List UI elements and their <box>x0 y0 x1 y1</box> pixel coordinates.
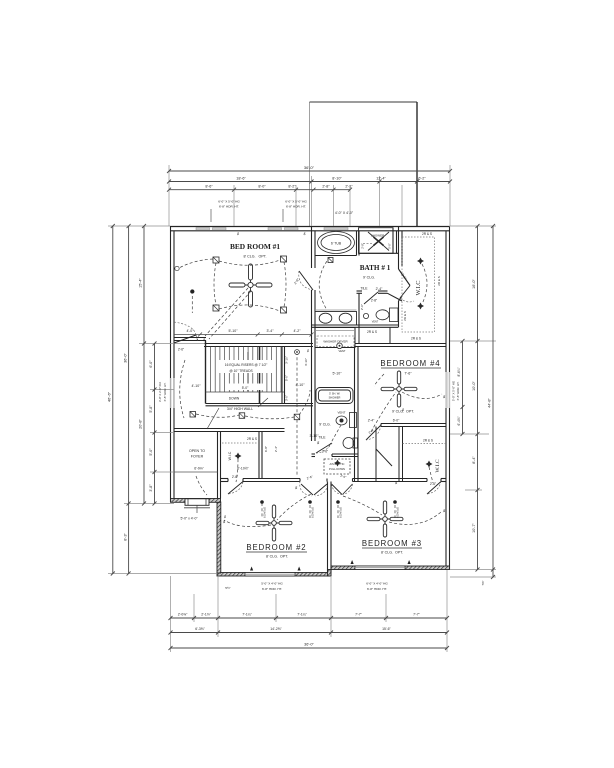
bottom extension lines <box>171 570 448 652</box>
svg-text:2'-8": 2'-8" <box>322 185 330 189</box>
top wall windows (gray sashes) <box>196 228 348 231</box>
bedroom1 fan to door run <box>205 288 248 336</box>
bedroom2 double door arcs <box>300 481 312 496</box>
bedroom3 double door <box>332 484 353 495</box>
svg-text:6'-8" HDR. HT.: 6'-8" HDR. HT. <box>456 381 460 400</box>
bedroom1 wiring loop <box>219 260 280 265</box>
bedroom4 south wall (door opening at left) <box>381 424 446 427</box>
svg-text:5'-0": 5'-0" <box>242 386 249 390</box>
foyer window niche <box>185 499 209 506</box>
bedroom2 double door <box>301 484 327 495</box>
bedroom2/3 divider wall <box>328 482 332 573</box>
speaker drops bedroom2 <box>260 500 397 504</box>
right dim horizontal ticks <box>450 226 496 577</box>
svg-text:2'-8": 2'-8" <box>361 243 365 249</box>
stair direction arrow <box>247 352 249 389</box>
svg-text:6'-0" X 5'-0" HG: 6'-0" X 5'-0" HG <box>285 200 307 204</box>
door size labels over openings <box>306 428 375 481</box>
svg-text:OPEN TO: OPEN TO <box>189 449 205 453</box>
bath1 bottom wall <box>312 325 399 327</box>
svg-text:TILE: TILE <box>318 436 326 440</box>
foyer/WIC divider wall <box>218 432 221 499</box>
stair center rail <box>259 347 261 404</box>
svg-text:6'-0": 6'-0" <box>149 360 153 368</box>
stair treads <box>211 347 282 393</box>
svg-text:DOWN: DOWN <box>229 397 240 401</box>
svg-text:BEDROOM #4: BEDROOM #4 <box>380 359 440 368</box>
svg-text:10'-7": 10'-7" <box>472 523 476 533</box>
svg-text:$: $ <box>236 232 240 236</box>
ceiling fan bedroom1 <box>229 264 272 307</box>
svg-text:5'-0": 5'-0" <box>388 243 392 249</box>
svg-text:PULL DOWN: PULL DOWN <box>329 467 345 471</box>
svg-text:SHOWER: SHOWER <box>371 234 385 238</box>
dim row below bedroom1 <box>174 333 314 337</box>
svg-text:2'-4": 2'-4" <box>274 446 278 452</box>
svg-text:VENT: VENT <box>337 411 345 415</box>
smoke detector hall <box>295 350 300 355</box>
top dim row A 36'-0" <box>167 169 452 173</box>
svg-text:2'-1": 2'-1" <box>345 185 353 189</box>
top dim row B <box>167 180 452 184</box>
svg-text:$: $ <box>394 480 398 485</box>
svg-text:8'-6⅞": 8'-6⅞" <box>457 367 461 376</box>
right dim line 16'/10'/8'-4"/10'-7" <box>476 224 480 572</box>
svg-text:8'-10": 8'-10" <box>332 177 342 181</box>
laundry closet <box>315 328 355 348</box>
tub divider wall <box>315 231 359 256</box>
svg-text:5'-0": 5'-0" <box>285 375 289 381</box>
vanity bath1 <box>315 309 357 311</box>
svg-text:5' SH. W/: 5' SH. W/ <box>329 392 340 396</box>
svg-text:36'-0": 36'-0" <box>123 353 127 363</box>
svg-text:5'-0" x 4'-0": 5'-0" x 4'-0" <box>180 517 198 521</box>
chimney chase right line <box>416 102 418 226</box>
bottom exterior wall bedroom2 <box>217 573 331 577</box>
svg-text:6'-9⅛": 6'-9⅛" <box>194 467 204 471</box>
bedroom3 runs <box>343 496 382 515</box>
svg-text:2R & S: 2R & S <box>423 439 433 443</box>
svg-text:3'-0" X 2'-0" FIX: 3'-0" X 2'-0" FIX <box>158 382 162 402</box>
wic left <box>236 459 238 482</box>
svg-text:6'-0" X 4'-0" HG: 6'-0" X 4'-0" HG <box>366 582 388 586</box>
svg-text:2'-6": 2'-6" <box>306 475 313 481</box>
toilet bath1 <box>363 308 398 322</box>
svg-text:8'-6": 8'-6" <box>205 185 213 189</box>
svg-text:W.I.C: W.I.C <box>228 451 232 460</box>
svg-text:2'-4": 2'-4" <box>368 428 375 435</box>
svg-text:46'-6": 46'-6" <box>107 391 112 402</box>
left exterior wall <box>171 227 175 503</box>
svg-text:7⅝": 7⅝" <box>481 580 485 585</box>
step wall between bedroom2 and bedroom3 bottoms <box>328 570 332 577</box>
svg-text:VENT: VENT <box>339 349 346 353</box>
stair 3/4 high wall <box>206 404 314 406</box>
svg-text:2'-8": 2'-8" <box>371 299 377 303</box>
svg-text:2'-1⅞": 2'-1⅞" <box>201 613 211 617</box>
svg-text:36'-0": 36'-0" <box>304 165 315 170</box>
svg-text:W.I.C: W.I.C <box>435 459 441 472</box>
svg-text:8' CLG. OPT.: 8' CLG. OPT. <box>381 551 403 555</box>
tub <box>318 232 355 254</box>
stair left wall <box>205 341 207 404</box>
WIC3 door <box>427 482 441 495</box>
junction boxes near stair base <box>190 412 300 420</box>
svg-text:6'-8" HDR. HT.: 6'-8" HDR. HT. <box>286 205 306 209</box>
bath2 bottom wall (door opening) <box>312 454 359 457</box>
bath2 <box>328 425 341 448</box>
svg-text:5'-10": 5'-10" <box>229 329 239 333</box>
svg-text:FOYER: FOYER <box>191 455 204 459</box>
bedroom4 door <box>366 425 381 440</box>
stairs texts <box>218 360 274 373</box>
svg-text:6'-8" HDR. HT.: 6'-8" HDR. HT. <box>262 587 282 591</box>
window end receptacle marks <box>250 560 411 571</box>
svg-text:6'-8" HDR. HT.: 6'-8" HDR. HT. <box>367 587 387 591</box>
svg-text:2R & S: 2R & S <box>247 437 257 441</box>
svg-text:6'-0" X 5'-0" HG: 6'-0" X 5'-0" HG <box>218 200 240 204</box>
wic top door arc <box>400 298 414 302</box>
bath2 door leaf <box>316 443 332 453</box>
closet between hall and WIC3 <box>376 427 403 482</box>
svg-text:8' CLG. OPT.: 8' CLG. OPT. <box>243 255 266 259</box>
bedroom1 wall outlets <box>175 266 194 293</box>
svg-text:16'-0": 16'-0" <box>472 279 476 289</box>
svg-text:7'-7": 7'-7" <box>413 613 421 617</box>
ceiling fan bedroom3 <box>367 501 403 537</box>
svg-text:3'-8": 3'-8" <box>149 484 153 492</box>
left wall window (stair landing) <box>170 378 174 408</box>
svg-text:36'-0": 36'-0" <box>304 643 314 647</box>
svg-text:4'-2": 4'-2" <box>294 329 302 333</box>
svg-text:8'-3": 8'-3" <box>123 533 127 541</box>
ceiling fan bedroom4 <box>381 371 417 407</box>
bath2 east wall <box>355 347 359 482</box>
svg-text:9' CLG.: 9' CLG. <box>363 276 375 280</box>
svg-text:7'-7": 7'-7" <box>355 613 363 617</box>
svg-text:7'-1¼": 7'-1¼" <box>242 613 252 617</box>
svg-text:3'-0": 3'-0" <box>285 395 289 401</box>
bottom dim row1 <box>169 616 450 620</box>
shower bath1 <box>359 228 394 254</box>
svg-text:BATH # 1: BATH # 1 <box>360 264 391 272</box>
bedroom1 door leaf <box>174 335 196 343</box>
svg-text:10'-0": 10'-0" <box>472 381 476 391</box>
svg-text:VENT: VENT <box>372 321 379 324</box>
top exterior wall <box>170 227 450 231</box>
svg-text:2'-6": 2'-6" <box>322 450 328 454</box>
hall / bedroom north wall (with door openings) <box>221 479 446 482</box>
bedroom3 double door arcs <box>332 484 343 495</box>
svg-text:8' CLG. OPT.: 8' CLG. OPT. <box>266 555 288 559</box>
svg-text:12'-4": 12'-4" <box>376 177 386 181</box>
left dim line 46'-6" <box>111 224 115 576</box>
svg-text:18'-6": 18'-6" <box>236 177 246 181</box>
bath2 toilet <box>343 438 358 449</box>
svg-text:15'-4": 15'-4" <box>139 278 143 288</box>
bedroom1 bottom wall <box>174 338 206 341</box>
right exterior wall <box>446 227 450 570</box>
svg-text:6'-8" HDR. HT.: 6'-8" HDR. HT. <box>163 382 167 401</box>
stair bottom rail <box>206 391 285 393</box>
bath1 west wall <box>312 227 316 442</box>
WIC bedroom3 <box>403 443 447 445</box>
bath1 light square <box>328 258 333 263</box>
svg-text:8'-4": 8'-4" <box>472 456 476 464</box>
left WIC east wall <box>259 432 262 479</box>
svg-text:2'-6": 2'-6" <box>400 273 408 281</box>
svg-text:BED ROOM #1: BED ROOM #1 <box>230 242 280 251</box>
svg-text:5'-10": 5'-10" <box>333 372 343 376</box>
svg-text:TILE: TILE <box>360 287 368 291</box>
chimney chase top line <box>310 101 418 103</box>
svg-text:20'-8": 20'-8" <box>139 419 143 429</box>
svg-text:2'-6": 2'-6" <box>340 474 347 480</box>
stair area runs <box>180 360 185 418</box>
hall vertical run <box>296 352 298 476</box>
top dim extension lines <box>169 165 450 226</box>
svg-text:3'-4": 3'-4" <box>267 329 275 333</box>
svg-text:7'-1¼": 7'-1¼" <box>297 613 307 617</box>
bath1 door arc <box>299 271 313 290</box>
svg-text:8'-0": 8'-0" <box>258 185 266 189</box>
wic right bottom <box>429 467 433 483</box>
left dim horizontal ticks <box>108 226 217 574</box>
bedroom1 left wall runs <box>179 259 213 268</box>
svg-text:$: $ <box>442 508 446 513</box>
svg-text:2'-0": 2'-0" <box>360 304 364 310</box>
left dim line 15'-4"/20'-8" <box>142 224 146 506</box>
svg-text:6'-10½": 6'-10½" <box>237 467 249 471</box>
svg-text:2'-6": 2'-6" <box>293 277 301 285</box>
svg-text:3'-10": 3'-10" <box>304 358 308 366</box>
foyer bottom exterior wall <box>171 499 221 503</box>
bedroom4 runs <box>371 392 396 432</box>
switches <box>202 337 446 524</box>
svg-text:SPEAKER: SPEAKER <box>396 507 399 518</box>
svg-text:6'-4⅜": 6'-4⅜" <box>457 416 461 425</box>
wic left door arc <box>228 482 243 494</box>
stair right wall <box>282 347 285 404</box>
svg-text:2R & S: 2R & S <box>422 232 432 236</box>
WIC door leaf <box>400 286 410 299</box>
bedroom2 left exterior wall <box>217 502 221 573</box>
top dim row C <box>167 188 352 192</box>
svg-text:5'-0": 5'-0" <box>149 448 153 456</box>
svg-text:3'-10": 3'-10" <box>310 434 320 438</box>
light diamonds <box>235 258 433 468</box>
wic top arc <box>422 264 427 304</box>
svg-text:BEDROOM #3: BEDROOM #3 <box>362 539 422 548</box>
right dim inner segments <box>461 339 465 436</box>
svg-text:6' TUB: 6' TUB <box>331 241 342 245</box>
svg-text:SHOWER: SHOWER <box>329 396 341 400</box>
svg-text:WASHER DRYER: WASHER DRYER <box>323 340 348 344</box>
left dim line segments 6'-0"/5'-8"/5'-0"/3'-8" <box>153 342 157 506</box>
chimney chase left line <box>309 102 311 226</box>
svg-text:2R & S: 2R & S <box>403 311 407 321</box>
svg-text:@ 10" TREADS: @ 10" TREADS <box>229 369 253 373</box>
bedroom4 door arc <box>366 425 381 440</box>
svg-text:9' CLG.: 9' CLG. <box>319 423 330 427</box>
svg-text:2'-0⅜": 2'-0⅜" <box>178 613 188 617</box>
svg-text:SPEAKER: SPEAKER <box>311 507 314 518</box>
svg-text:$: $ <box>316 440 320 445</box>
bedroom1 entry arc <box>196 335 198 341</box>
svg-text:7'-6": 7'-6" <box>404 372 412 376</box>
bottom dim row3 36'-0" <box>169 646 450 650</box>
bottom dim row2 <box>169 631 450 635</box>
WIC top (bath1 closet) west wall <box>399 227 411 302</box>
svg-text:2'-6": 2'-6" <box>178 348 184 352</box>
shower east wall <box>359 228 399 254</box>
svg-text:4'-10": 4'-10" <box>192 384 202 388</box>
water closet walls <box>357 291 403 327</box>
svg-text:W.I.C: W.I.C <box>415 280 422 295</box>
misc small rotated dims in middle <box>264 304 407 452</box>
svg-text:3/4" HIGH WALL: 3/4" HIGH WALL <box>227 407 253 411</box>
svg-text:2R & S: 2R & S <box>437 276 441 286</box>
svg-text:SPEAKER: SPEAKER <box>339 507 342 518</box>
left dim line 36'-0"/8'-3" <box>127 224 131 576</box>
WIC bottom wall / bedroom4 top wall <box>355 344 446 347</box>
attic access dashed box <box>324 459 350 474</box>
svg-text:15'-6": 15'-6" <box>382 627 391 631</box>
svg-text:$: $ <box>303 232 307 236</box>
left WIC door <box>228 482 243 495</box>
svg-text:44'-8": 44'-8" <box>488 398 492 408</box>
svg-text:5'-0" X 4'-0" HG: 5'-0" X 4'-0" HG <box>261 582 283 586</box>
switches on top wall <box>236 232 307 236</box>
foyer <box>196 476 207 495</box>
svg-text:$: $ <box>442 394 446 399</box>
svg-text:6'-8" HDR. HT.: 6'-8" HDR. HT. <box>219 205 239 209</box>
bottom exterior wall bedroom3 <box>331 566 450 570</box>
svg-text:14'-2⅝": 14'-2⅝" <box>270 627 282 631</box>
WC door leaf <box>364 292 378 304</box>
svg-text:5'-8": 5'-8" <box>149 405 153 413</box>
bath2 door arc <box>316 443 332 453</box>
bath2 cabinet <box>350 413 357 428</box>
svg-text:6'-2": 6'-2" <box>418 177 426 181</box>
svg-text:8'-2": 8'-2" <box>288 185 296 189</box>
svg-text:2'-4": 2'-4" <box>368 419 375 423</box>
svg-text:2'-4": 2'-4" <box>376 287 384 291</box>
wic3 door arc <box>427 481 441 494</box>
bath1 wiring <box>319 257 330 310</box>
speaker squares bedroom1 <box>213 256 287 313</box>
svg-text:2R & S: 2R & S <box>411 337 421 341</box>
WIC top shelving <box>402 237 435 332</box>
svg-text:SPEAKER: SPEAKER <box>263 507 266 518</box>
svg-text:16 EQUAL RISERS @ 7 1/2": 16 EQUAL RISERS @ 7 1/2" <box>225 363 268 367</box>
hall south wall (left of corridor) <box>174 429 285 432</box>
linen closet below WC <box>359 327 390 343</box>
stair top wall <box>204 344 313 347</box>
svg-text:2R & S: 2R & S <box>367 330 377 334</box>
svg-text:3'-10": 3'-10" <box>285 356 289 364</box>
right wall window (bedroom4) <box>446 372 450 408</box>
svg-text:BEDROOM #2: BEDROOM #2 <box>246 543 306 552</box>
bath2 vent fan <box>336 416 347 425</box>
svg-text:6'-3⅝": 6'-3⅝" <box>195 627 205 631</box>
laundry vent <box>337 343 343 349</box>
ceiling fan bedroom2 <box>256 505 292 541</box>
foyer gray line <box>174 471 218 473</box>
right dim outer 44'-8" <box>491 224 495 579</box>
svg-text:6'-0": 6'-0" <box>393 419 400 423</box>
svg-text:$: $ <box>222 519 226 524</box>
svg-text:4'-0": 4'-0" <box>187 329 195 333</box>
svg-text:4'-0" X 4'-0": 4'-0" X 4'-0" <box>335 211 354 215</box>
bedroom2 runs <box>277 494 311 520</box>
door swing arcs (dashed) <box>174 271 441 496</box>
svg-text:5½": 5½" <box>225 586 230 590</box>
bath2 shower <box>316 388 353 404</box>
svg-text:6'-8": 6'-8" <box>264 446 268 452</box>
bath1 door leaf <box>299 271 313 290</box>
svg-text:$: $ <box>306 349 309 353</box>
svg-text:5'-0" X 5'-0" HG: 5'-0" X 5'-0" HG <box>452 380 456 401</box>
svg-text:$: $ <box>294 485 298 490</box>
